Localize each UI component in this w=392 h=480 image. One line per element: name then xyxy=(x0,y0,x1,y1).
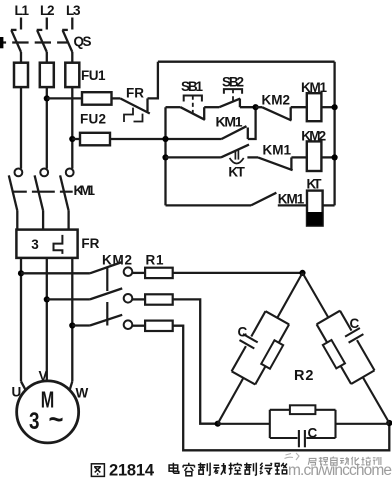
fuse FU2 upper xyxy=(82,92,112,105)
svg-text:L2: L2 xyxy=(40,3,55,18)
svg-text:3: 3 xyxy=(29,408,40,435)
wire fuse to control rail xyxy=(110,138,222,140)
node junction rail2 xyxy=(162,136,168,142)
motor M xyxy=(12,369,89,443)
caption char 制 xyxy=(244,463,256,476)
svg-text:R1: R1 xyxy=(146,253,164,268)
fuse FU2 lower xyxy=(80,133,110,146)
svg-text:C: C xyxy=(238,325,248,340)
wire phase2 QS to KM1 xyxy=(46,52,48,169)
timer contact KT xyxy=(221,145,258,180)
watermark xyxy=(285,453,392,479)
node junction after SB2 xyxy=(253,104,259,110)
wire R1-1 to top vertex xyxy=(173,272,303,274)
svg-text:KM1: KM1 xyxy=(263,143,292,158)
svg-text:KM2: KM2 xyxy=(102,253,132,268)
wm char 自 xyxy=(331,457,337,466)
branch right C parallel R2 xyxy=(303,273,390,423)
svg-text:L3: L3 xyxy=(66,3,81,18)
wire top rail xyxy=(158,61,335,63)
wm char 培 xyxy=(361,457,370,465)
caption 图 21814 电容制动控制线路 xyxy=(91,462,287,480)
svg-text:R2: R2 xyxy=(294,368,314,384)
svg-text:L1: L1 xyxy=(15,3,30,18)
svg-text:KM1: KM1 xyxy=(216,114,243,130)
node left vertex xyxy=(215,421,221,427)
caption char 电 xyxy=(169,463,179,473)
wire phase1 QS to KM1 xyxy=(20,52,22,169)
resistor R1 bank xyxy=(132,253,172,332)
node L3 xyxy=(66,3,81,30)
node top vertex xyxy=(299,270,305,276)
thermal relay FR heater box xyxy=(16,230,99,258)
svg-text:KT: KT xyxy=(228,165,245,180)
wire fuse to FR contact xyxy=(112,97,121,99)
wire FR contact to top rail xyxy=(148,62,158,99)
svg-text:KT: KT xyxy=(307,177,323,192)
wire to FU2 upper fuse xyxy=(47,97,82,99)
wire left control vertical xyxy=(164,107,166,205)
wm char 化 xyxy=(351,457,359,465)
coil KM2 xyxy=(301,129,334,172)
caption char 动 xyxy=(213,463,226,475)
wm char 动 xyxy=(340,457,349,465)
caption char 控 xyxy=(229,463,242,475)
node L1 xyxy=(15,3,30,30)
node junction rail KM2 xyxy=(332,154,338,160)
svg-text:W: W xyxy=(76,386,89,401)
coil KM1 xyxy=(301,80,335,121)
svg-text:3: 3 xyxy=(31,237,39,252)
caption char 制 xyxy=(198,463,210,476)
wire phase3 below FR box xyxy=(71,258,73,382)
wire KT row lead xyxy=(166,156,221,158)
svg-text:21814: 21814 xyxy=(109,462,155,480)
pushbutton SB2 xyxy=(219,75,255,108)
contact KM1 self-hold xyxy=(216,107,256,139)
svg-text:V: V xyxy=(39,369,48,384)
pushbutton SB1 xyxy=(166,79,220,120)
wire phase2 below FR box xyxy=(46,258,48,381)
node right vertex xyxy=(386,420,392,426)
svg-text:QS: QS xyxy=(74,34,92,49)
wire R1-2 to left vertex xyxy=(173,299,218,423)
wire to FU2 lower fuse xyxy=(72,138,80,140)
branch bottom C parallel R2 xyxy=(218,405,390,447)
node junction rail KM1 xyxy=(332,104,338,110)
svg-text:KM2: KM2 xyxy=(262,93,291,108)
svg-text:KM1: KM1 xyxy=(278,192,305,207)
svg-text:C: C xyxy=(350,316,360,331)
wm char 训 xyxy=(373,457,381,465)
svg-text:~: ~ xyxy=(49,404,64,435)
wire KM1 NO row lead xyxy=(166,204,252,206)
svg-text:FU2: FU2 xyxy=(80,112,106,127)
branch left C parallel R2 xyxy=(218,273,303,424)
svg-text:FR: FR xyxy=(81,236,99,251)
contact KM1 interlock2 xyxy=(258,143,307,171)
node junction L2 tap xyxy=(44,95,50,101)
contactor KM1 main contacts xyxy=(9,169,96,230)
fuse FU1 xyxy=(14,63,106,87)
svg-text:C: C xyxy=(308,426,318,441)
svg-text:FR: FR xyxy=(126,86,144,101)
node junction L3 tap xyxy=(69,136,75,142)
svg-text:U: U xyxy=(12,385,22,400)
svg-text:SB1: SB1 xyxy=(181,79,203,94)
node junction row KT xyxy=(162,154,168,160)
caption char 线 xyxy=(260,463,272,475)
thermal relay contact FR xyxy=(120,86,150,123)
disconnect switch QS xyxy=(0,30,92,52)
svg-text:m.cn/wincchome: m.cn/wincchome xyxy=(288,462,392,479)
caption char 路 xyxy=(275,463,287,474)
wm char 程 xyxy=(319,457,328,465)
contact KM1 NO aux xyxy=(251,192,307,207)
node L2 xyxy=(40,3,55,30)
contactor KM2 braking contacts xyxy=(18,262,132,329)
svg-text:FU1: FU1 xyxy=(81,68,106,83)
coil KT xyxy=(307,177,335,226)
contact KM2 interlock xyxy=(256,93,307,121)
wm char 启 xyxy=(308,458,316,465)
wire right rail xyxy=(333,62,335,206)
svg-text:SB2: SB2 xyxy=(222,75,244,90)
wire phase1 below FR box xyxy=(20,258,22,382)
svg-text:KM1: KM1 xyxy=(74,183,96,198)
caption char 容 xyxy=(183,463,194,476)
wire phase3 QS to KM1 xyxy=(71,52,73,169)
wire R1-3 return to right vertex xyxy=(173,326,390,451)
